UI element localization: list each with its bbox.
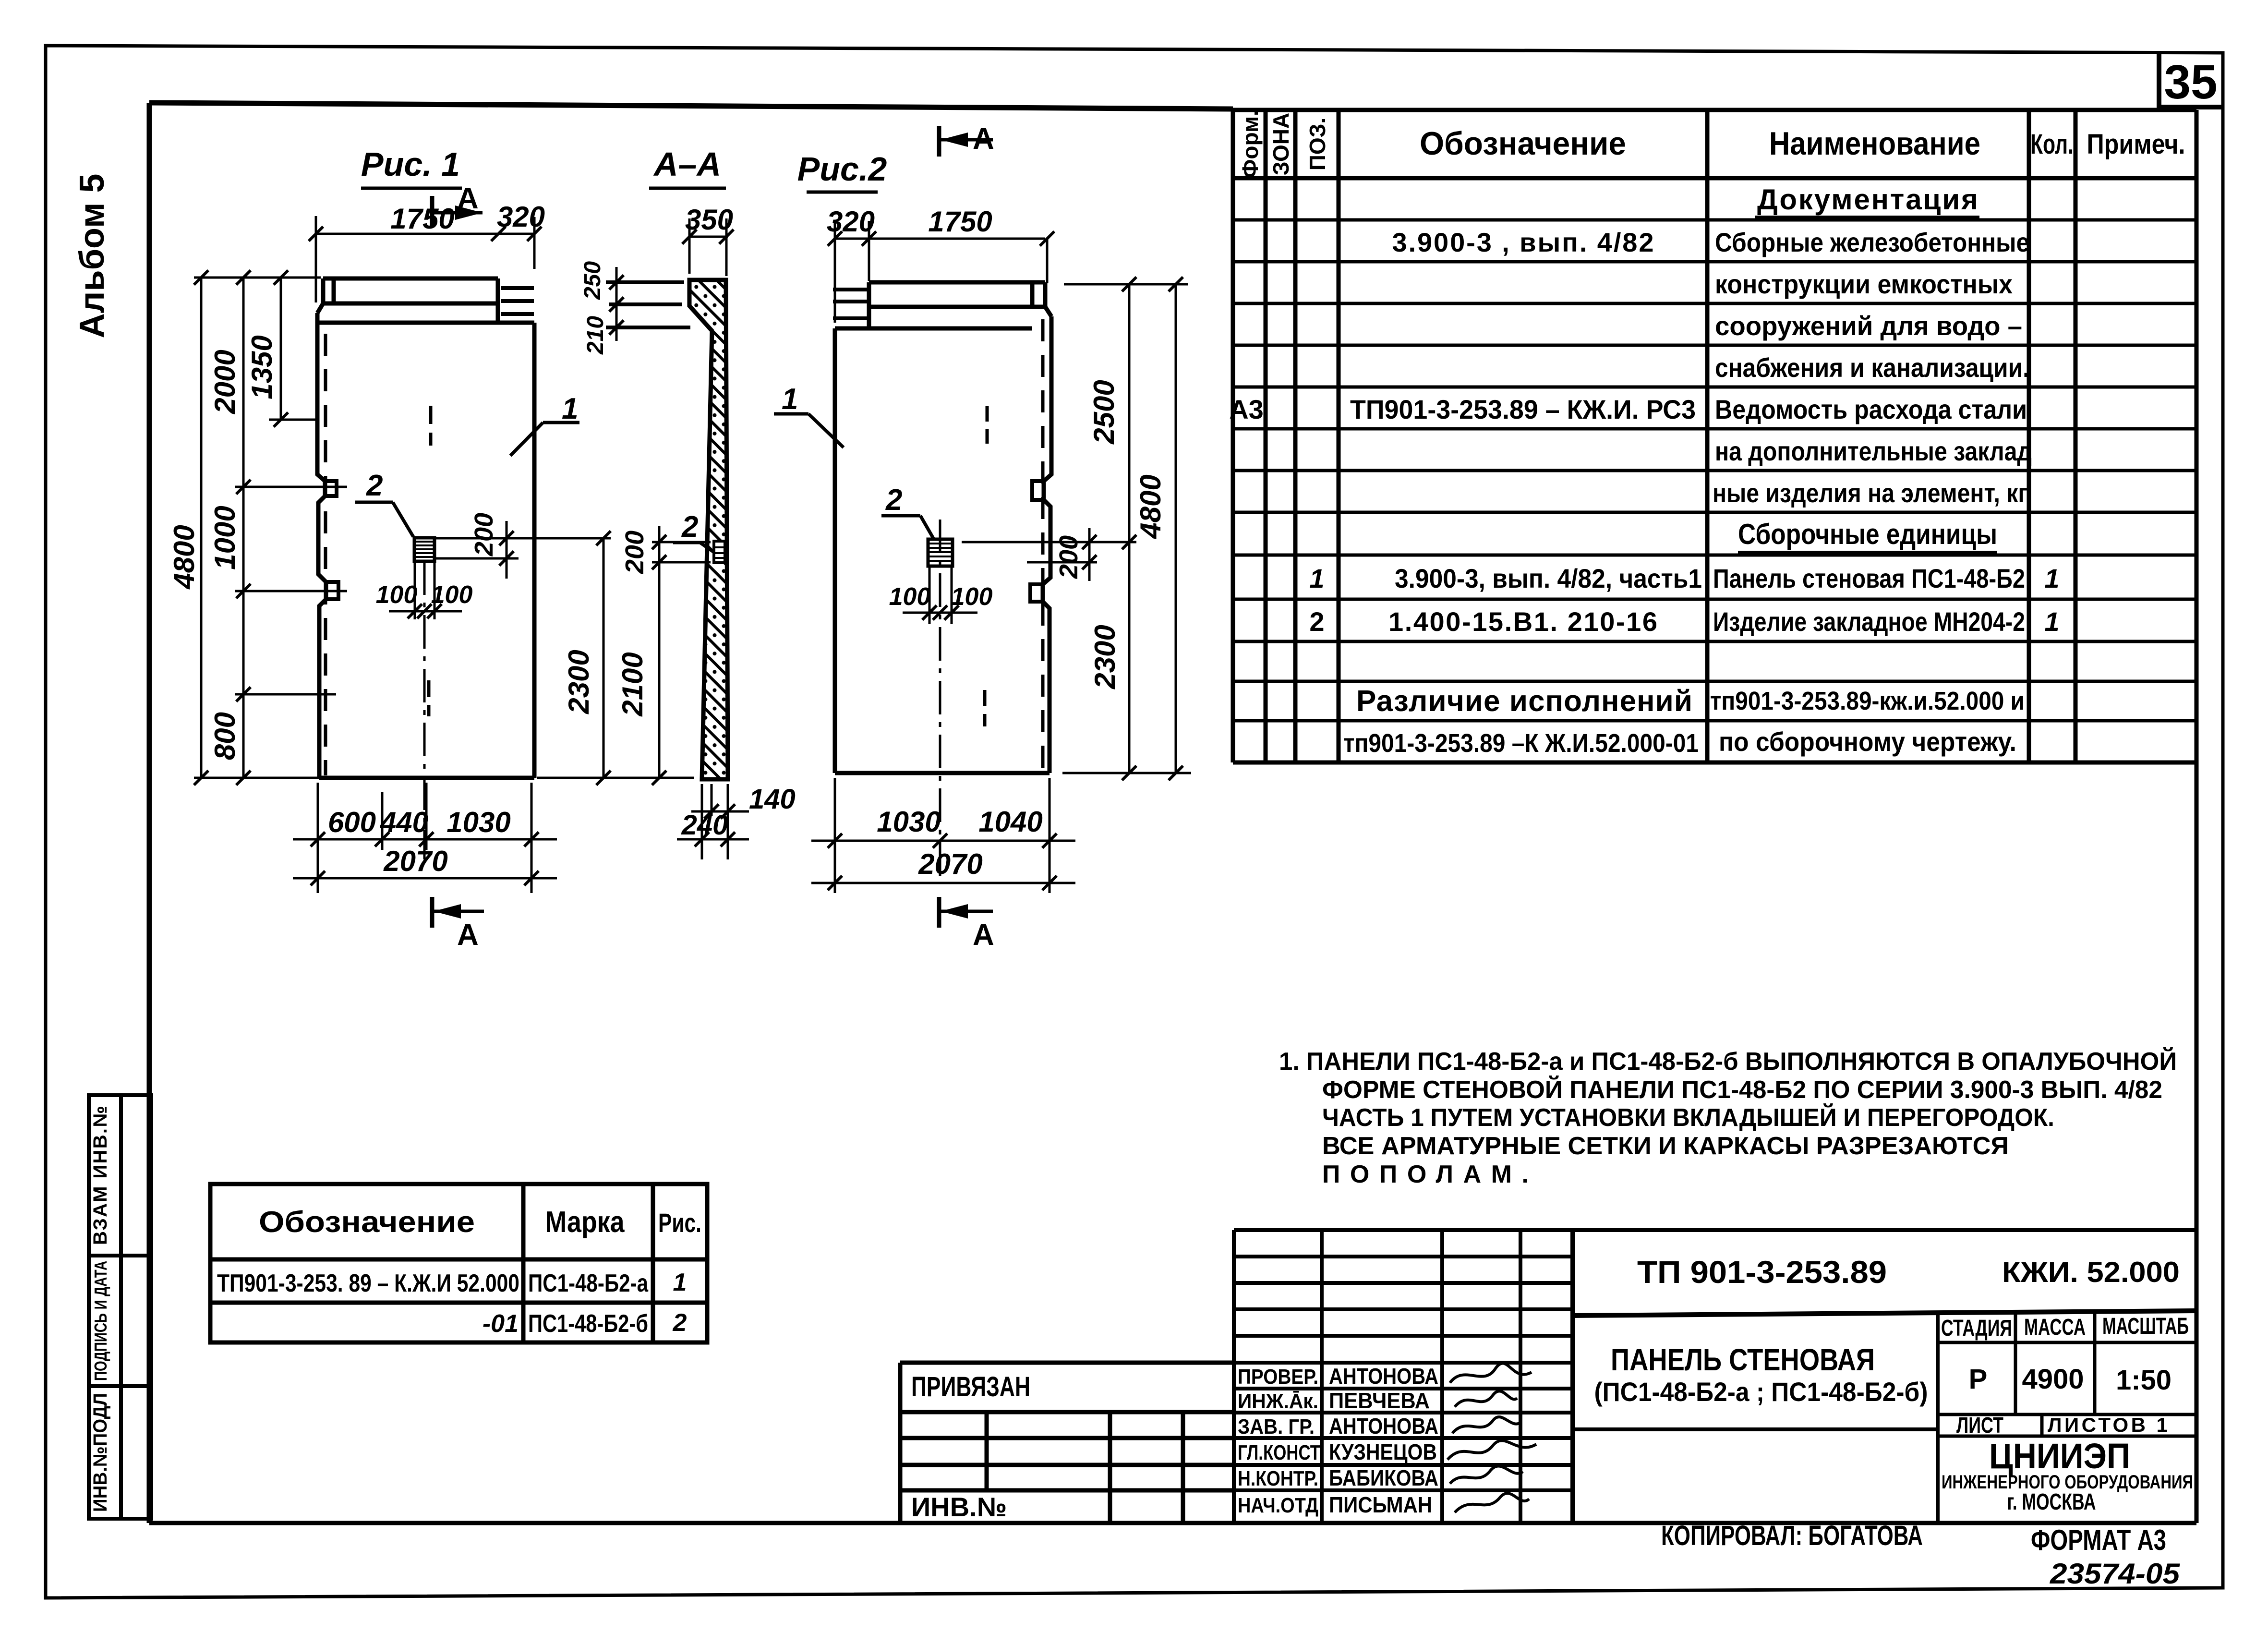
- dimension 2500 (right Рис.2): [1088, 277, 1136, 549]
- svg-text:2500: 2500: [1088, 380, 1120, 444]
- svg-text:1750: 1750: [390, 203, 454, 235]
- svg-text:2100: 2100: [616, 652, 649, 716]
- dashed formwork joint line Рис.2: [1041, 319, 1045, 771]
- svg-text:Н.КОНТР.: Н.КОНТР.: [1238, 1467, 1318, 1490]
- table row: по сборочному чертежу: [1343, 726, 2016, 758]
- svg-text:1:50: 1:50: [2116, 1365, 2171, 1396]
- dimension 200 (mid Рис.1): [434, 513, 519, 579]
- svg-text:АНТОНОВА: АНТОНОВА: [1329, 1414, 1438, 1438]
- svg-text:240: 240: [681, 810, 728, 841]
- section marker А (bottom of Рис.2): [939, 897, 994, 952]
- title block: name box: [1573, 1313, 1938, 1523]
- specification table grid: [1233, 110, 2196, 1523]
- section wall А-А (concrete): [689, 280, 728, 779]
- svg-text:ТП901-3-253. 89 – К.Ж.И 52.00: ТП901-3-253. 89 – К.Ж.И 52.000: [217, 1269, 519, 1297]
- svg-text:МАСШТАБ: МАСШТАБ: [2102, 1314, 2189, 1339]
- svg-text:1: 1: [562, 392, 578, 425]
- svg-text:1030: 1030: [446, 806, 510, 838]
- svg-text:БАБИКОВА: БАБИКОВА: [1329, 1465, 1438, 1490]
- section marker А (top of Рис.1): [432, 182, 483, 227]
- svg-text:ЛИСТОВ 1: ЛИСТОВ 1: [2048, 1414, 2168, 1436]
- svg-text:4900: 4900: [2022, 1364, 2084, 1395]
- svg-text:ПЕВЧЕВА: ПЕВЧЕВА: [1329, 1388, 1430, 1413]
- extension lines (left Рис.1): [194, 278, 347, 778]
- inner frame: [149, 103, 2196, 1523]
- svg-text:на дополнительные заклад: на дополнительные заклад: [1715, 436, 2032, 466]
- svg-text:Наименование: Наименование: [1769, 125, 1980, 162]
- svg-text:200: 200: [620, 531, 649, 574]
- embedded item 2 hatched box (Рис.2): [928, 539, 953, 566]
- svg-text:320: 320: [827, 205, 875, 238]
- dimension 4800 (right Рис.2): [1062, 277, 1191, 780]
- svg-text:ПС1-48-Б2-б: ПС1-48-Б2-б: [528, 1310, 648, 1338]
- svg-text:ЗОНА: ЗОНА: [1268, 113, 1293, 175]
- dimension 200 (left А-А): [620, 526, 711, 581]
- title block: main designation box: [1573, 1230, 2196, 1523]
- leader label 2 (Рис.2): [881, 484, 933, 538]
- svg-text:ТП901-3-253.89 – КЖ.И. РС3: ТП901-3-253.89 – КЖ.И. РС3: [1350, 394, 1696, 424]
- leader label 1 (Рис.2): [774, 383, 844, 447]
- svg-text:ПАНЕЛЬ СТЕНОВАЯ: ПАНЕЛЬ СТЕНОВАЯ: [1611, 1342, 1875, 1377]
- svg-text:ИНЖ.Āк.: ИНЖ.Āк.: [1238, 1390, 1318, 1413]
- dimension 200 (mid Рис.2): [962, 528, 1136, 581]
- svg-text:по сборочному чертежу.: по сборочному чертежу.: [1719, 726, 2016, 757]
- dimension 1750 (top Рис.2): [869, 205, 1054, 283]
- keyway squares on left edge Рис.1: [325, 481, 338, 599]
- dimension 4800 (left Рис.1): [168, 270, 208, 785]
- svg-text:2000: 2000: [209, 350, 241, 414]
- svg-text:3.900-3 , вып. 4/82: 3.900-3 , вып. 4/82: [1392, 227, 1654, 257]
- svg-text:3.900-3, вып. 4/82, часть1: 3.900-3, вып. 4/82, часть1: [1395, 563, 1702, 593]
- svg-text:1: 1: [2044, 563, 2059, 593]
- svg-text:2: 2: [1309, 606, 1324, 637]
- svg-text:Рис.2: Рис.2: [797, 150, 887, 188]
- page number box 35: [2159, 53, 2223, 109]
- svg-text:250: 250: [580, 261, 605, 300]
- svg-text:800: 800: [209, 712, 241, 760]
- notes text block: [1279, 1047, 2177, 1188]
- svg-text:1: 1: [2044, 606, 2059, 637]
- svg-text:ТП 901-3-253.89: ТП 901-3-253.89: [1637, 1254, 1887, 1290]
- svg-text:ПС1-48-Б2-а: ПС1-48-Б2-а: [528, 1269, 649, 1297]
- svg-text:Изделие закладное МН204-2: Изделие закладное МН204-2: [1713, 606, 2025, 637]
- svg-text:КУЗНЕЦОВ: КУЗНЕЦОВ: [1329, 1439, 1437, 1464]
- svg-text:Ведомость расхода стали: Ведомость расхода стали: [1715, 394, 2027, 424]
- svg-text:140: 140: [749, 784, 796, 815]
- centerline below embed Рис.1: [423, 561, 426, 859]
- keyway squares on right edge Рис.2: [1030, 481, 1044, 602]
- svg-text:ПОДПИСЬ И ДАТА: ПОДПИСЬ И ДАТА: [91, 1261, 110, 1381]
- А-А section title: [649, 145, 726, 188]
- table row: Сборочные единицы: [1738, 518, 1997, 552]
- svg-text:100: 100: [889, 583, 931, 611]
- svg-text:Марка: Марка: [545, 1206, 625, 1239]
- table row: Различие исполнений: [1356, 685, 2025, 718]
- svg-text:ПРИВЯЗАН: ПРИВЯЗАН: [911, 1371, 1030, 1402]
- bottom dimension 2070 (Рис.1): [293, 845, 557, 885]
- table row: 2 Изделие закладное: [1309, 606, 2059, 637]
- rebar whiskers left of top strip Рис.2: [833, 290, 868, 318]
- svg-text:г. МОСКВА: г. МОСКВА: [2007, 1489, 2096, 1515]
- svg-text:1. ПАНЕЛИ ПС1-48-Б2-а и ПС: 1. ПАНЕЛИ ПС1-48-Б2-а и ПС1-48-Б2-б ВЫПО…: [1279, 1047, 2177, 1076]
- title block: привязан labels: [911, 1371, 1030, 1522]
- title block: привязан box grid: [900, 1363, 1234, 1523]
- small table row 1: [217, 1269, 687, 1297]
- rebar whiskers right of top strip Рис.1: [501, 288, 534, 314]
- table row: 3.900-3 вып 4/82: [1392, 227, 2030, 257]
- bottom dimension 2070 (Рис.2): [811, 848, 1075, 890]
- table row: 1 Панель стеновая: [1309, 563, 2059, 593]
- svg-text:1040: 1040: [978, 806, 1042, 838]
- centerline through embed Рис.2: [939, 520, 941, 879]
- svg-text:100: 100: [951, 583, 993, 611]
- table row: А3 ТП901-3-253.89-КЖ.И. РС3: [1229, 394, 2027, 424]
- panel Рис.1 outline (поз.1): [317, 278, 534, 778]
- svg-text:А: А: [973, 122, 994, 156]
- svg-text:ПОЗ.: ПОЗ.: [1305, 118, 1330, 170]
- svg-text:снабжения и канализации.: снабжения и канализации.: [1715, 352, 2029, 383]
- svg-text:200: 200: [1054, 535, 1083, 579]
- svg-text:Сборные железобетонные: Сборные железобетонные: [1715, 227, 2029, 257]
- svg-text:210: 210: [583, 316, 608, 355]
- svg-text:КЖИ. 52.000: КЖИ. 52.000: [2002, 1256, 2180, 1288]
- svg-text:ВСЕ АРМАТУРНЫЕ СЕТКИ И КАР: ВСЕ АРМАТУРНЫЕ СЕТКИ И КАРКАСЫ РАЗРЕЗАЮТ…: [1322, 1132, 2009, 1160]
- svg-text:Кол.: Кол.: [2030, 129, 2074, 160]
- title block: name texts: [1594, 1342, 1928, 1407]
- svg-text:100: 100: [431, 581, 473, 609]
- svg-text:ФОРМАТ А3: ФОРМАТ А3: [2031, 1524, 2166, 1556]
- svg-text:(ПС1-48-Б2-а ; ПС1-48-Б2-б): (ПС1-48-Б2-а ; ПС1-48-Б2-б): [1594, 1377, 1928, 1407]
- section marker А (top of Рис.2): [939, 122, 994, 157]
- dimension 1750 (top Рис.1): [309, 203, 506, 302]
- svg-text:ЦНИИЭП: ЦНИИЭП: [1989, 1436, 2130, 1476]
- svg-text:сооружений для водо –: сооружений для водо –: [1715, 311, 2022, 341]
- svg-text:4800: 4800: [168, 525, 200, 589]
- title block: ЦНИИЭП: [1942, 1436, 2193, 1515]
- svg-text:1000: 1000: [209, 506, 241, 569]
- svg-text:тп901-3-253.89 –К Ж.И.52.000-0: тп901-3-253.89 –К Ж.И.52.000-01: [1343, 729, 1699, 758]
- svg-text:2070: 2070: [383, 845, 447, 877]
- title block: sign table grid: [1234, 1230, 2196, 1523]
- dimension 320 (top Рис.2): [827, 205, 876, 323]
- svg-text:ные изделия на элемент, кг.: ные изделия на элемент, кг.: [1713, 478, 2032, 508]
- left margin stamp column boxes: [89, 1095, 151, 1519]
- svg-text:ФОРМЕ СТЕНОВОЙ ПАНЕЛИ ПС1-4: ФОРМЕ СТЕНОВОЙ ПАНЕЛИ ПС1-48-Б2 ПО СЕРИИ…: [1322, 1076, 2162, 1104]
- leader label 2 (А-А): [673, 510, 714, 552]
- Рис.1 title: [361, 145, 462, 188]
- svg-text:ПИСЬМАН: ПИСЬМАН: [1329, 1492, 1432, 1517]
- svg-text:Примеч.: Примеч.: [2087, 129, 2185, 160]
- svg-text:А3: А3: [1229, 394, 1264, 424]
- svg-text:ИНВ.№: ИНВ.№: [911, 1492, 1007, 1522]
- svg-text:ЛИСТ: ЛИСТ: [1956, 1413, 2003, 1438]
- svg-text:ИНВ.№ПОДЛ: ИНВ.№ПОДЛ: [90, 1393, 111, 1512]
- rebar whiskers left of А-А: [606, 282, 690, 327]
- svg-text:35: 35: [2164, 55, 2217, 109]
- svg-text:Альбом 5: Альбом 5: [73, 174, 111, 338]
- svg-text:23574-05: 23574-05: [2050, 1558, 2181, 1590]
- svg-text:1: 1: [782, 383, 798, 416]
- hidden dash marks Рис.2: [985, 406, 987, 726]
- svg-text:1750: 1750: [928, 205, 992, 238]
- svg-text:600: 600: [328, 806, 376, 838]
- svg-text:4800: 4800: [1134, 474, 1167, 539]
- svg-text:1: 1: [673, 1269, 687, 1296]
- svg-text:Рис.: Рис.: [658, 1208, 701, 1238]
- section marker А (bottom of Рис.1): [432, 897, 484, 952]
- svg-text:350: 350: [685, 204, 733, 236]
- Рис.2 title: [797, 150, 887, 192]
- svg-text:2: 2: [673, 1309, 687, 1337]
- dimension 2300 (right Рис.2): [1089, 542, 1136, 780]
- svg-text:Документация: Документация: [1757, 183, 1978, 216]
- small marks table grid: [210, 1184, 707, 1342]
- table row: Документация: [1755, 183, 1979, 217]
- svg-text:Различие исполнений: Различие исполнений: [1356, 685, 1692, 718]
- svg-text:Обозначение: Обозначение: [259, 1206, 475, 1239]
- svg-text:Сборочные единицы: Сборочные единицы: [1738, 518, 1997, 550]
- svg-text:2: 2: [885, 484, 902, 517]
- dimension 350 (top А-А): [682, 204, 734, 276]
- dimension 2300 (right Рис.1): [454, 531, 611, 785]
- svg-text:А–А: А–А: [653, 145, 721, 183]
- svg-text:тп901-3-253.89-кж.и.52.000 и: тп901-3-253.89-кж.и.52.000 и: [1710, 687, 2025, 715]
- svg-text:А: А: [973, 919, 994, 952]
- dimension 100 100 (below embed Рис.1): [376, 561, 473, 619]
- svg-text:2300: 2300: [563, 650, 595, 714]
- svg-text:2070: 2070: [918, 848, 982, 880]
- title block: designation texts: [1637, 1254, 2180, 1290]
- svg-text:440: 440: [380, 806, 428, 838]
- svg-text:КОПИРОВАЛ: БОГАТОВА: КОПИРОВАЛ: БОГАТОВА: [1661, 1520, 1923, 1551]
- bottom dimension 600/440/1030 (Рис.1): [293, 783, 557, 893]
- svg-text:ЗАВ. ГР.: ЗАВ. ГР.: [1238, 1415, 1315, 1438]
- svg-text:конструкции емкостных: конструкции емкостных: [1715, 269, 2013, 299]
- svg-text:МАССА: МАССА: [2024, 1315, 2086, 1340]
- svg-text:ПРОВЕР.: ПРОВЕР.: [1238, 1365, 1318, 1389]
- dimension 1350 (left Рис.1): [246, 270, 288, 427]
- svg-text:Рис. 1: Рис. 1: [361, 145, 460, 183]
- svg-text:ВЗАМ ИНВ.№: ВЗАМ ИНВ.№: [90, 1106, 111, 1245]
- svg-text:СТАДИЯ: СТАДИЯ: [1941, 1316, 2012, 1341]
- svg-text:ГЛ.КОНСТ: ГЛ.КОНСТ: [1238, 1441, 1320, 1464]
- svg-text:Обозначение: Обозначение: [1420, 125, 1626, 162]
- dimension 100 100 (below embed Рис.2): [889, 568, 993, 624]
- title block: signatures: [1448, 1363, 1536, 1512]
- panel Рис.2 outline (поз.1): [835, 282, 1051, 773]
- dashed formwork joint line Рис.1: [324, 334, 327, 775]
- svg-text:100: 100: [376, 581, 418, 609]
- svg-text:1030: 1030: [877, 806, 941, 838]
- svg-text:200: 200: [470, 513, 498, 556]
- embedded item 2 hatched box (Рис.1): [414, 538, 434, 561]
- table header labels: [1238, 110, 2185, 178]
- svg-text:1: 1: [1309, 563, 1324, 593]
- bottom dimension 1030/1040 (Рис.2): [811, 778, 1075, 893]
- svg-text:320: 320: [497, 201, 545, 233]
- small table headers: [259, 1206, 701, 1239]
- leader label 1 (Рис.1): [510, 392, 579, 456]
- dimension 240 (bottom А-А): [677, 784, 749, 859]
- hidden dash marks Рис.1: [429, 406, 431, 716]
- svg-text:Форм.: Форм.: [1238, 110, 1263, 178]
- svg-text:НАЧ.ОТД: НАЧ.ОТД: [1238, 1494, 1318, 1517]
- dimension 2100 (left А-А): [611, 562, 694, 785]
- title block: sign table names: [1329, 1364, 1438, 1517]
- svg-text:ПОПОЛАМ.: ПОПОЛАМ.: [1322, 1160, 1529, 1188]
- small table row 2: [483, 1309, 687, 1338]
- title block: стадия масса масштаб: [1938, 1313, 2196, 1414]
- svg-text:2: 2: [681, 510, 698, 544]
- svg-text:А: А: [457, 182, 479, 215]
- dimension 320 (top Рис.1): [497, 201, 545, 269]
- dimension 250/210 (left А-А): [580, 261, 624, 355]
- svg-text:Р: Р: [1969, 1364, 1988, 1395]
- dimension 140 (bottom А-А): [691, 784, 796, 859]
- title block: sign table labels: [1238, 1365, 1320, 1517]
- svg-text:2300: 2300: [1089, 625, 1121, 689]
- svg-text:АНТОНОВА: АНТОНОВА: [1329, 1364, 1438, 1389]
- svg-text:1350: 1350: [246, 335, 278, 399]
- dimension chain 2000/1000/800 (left Рис.1): [209, 270, 251, 785]
- embedded item 2 in section А-А: [714, 541, 725, 563]
- leader label 2 (Рис.1): [355, 469, 413, 537]
- svg-text:-01: -01: [483, 1310, 519, 1338]
- title block: лист листов: [1938, 1414, 2196, 1436]
- svg-text:ЧАСТЬ 1 ПУТЕМ УСТАНОВКИ ВКЛ: ЧАСТЬ 1 ПУТЕМ УСТАНОВКИ ВКЛАДЫШЕЙ И ПЕРЕ…: [1322, 1103, 2054, 1132]
- svg-text:2: 2: [366, 469, 383, 502]
- svg-text:А: А: [457, 919, 479, 952]
- svg-text:Панель стеновая ПС1-48-Б2: Панель стеновая ПС1-48-Б2: [1713, 563, 2025, 593]
